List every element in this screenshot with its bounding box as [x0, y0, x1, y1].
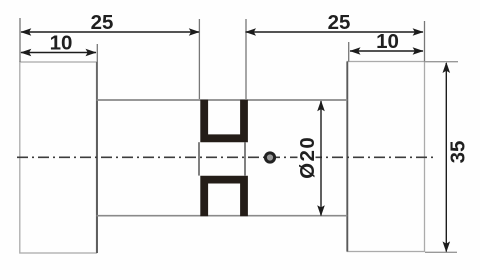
svg-text:35: 35: [446, 141, 469, 164]
arrow D20 up: [317, 100, 325, 111]
dimension line 35: [445, 63, 447, 252]
extension line right end: [424, 21, 426, 62]
shaft bottom edge: [97, 215, 348, 217]
svg-text:Ø20: Ø20: [296, 136, 319, 179]
centerline: [17, 156, 435, 158]
svg-text:10: 10: [376, 30, 399, 53]
groove root left silhouette line: [198, 142, 200, 175]
extension line groove left: [198, 19, 200, 99]
svg-text:25: 25: [328, 11, 351, 34]
arrow 10L left: [20, 49, 31, 57]
arrow 25R right: [413, 28, 424, 36]
groove upper profile (thick U): [204, 100, 244, 139]
dimension line 10 left: [21, 52, 96, 54]
extension line 35 bottom: [425, 251, 457, 253]
extension line groove right: [245, 19, 247, 99]
arrow 10L right: [86, 49, 97, 57]
arrow 35 up: [443, 62, 451, 73]
dimension line 25 right: [246, 31, 424, 33]
arrow 10R right: [413, 47, 424, 55]
arrow 25L right: [189, 28, 200, 36]
svg-text:25: 25: [91, 11, 114, 34]
groove root right silhouette line: [244, 142, 246, 175]
arrow 35 down: [443, 241, 451, 252]
right flange outline: [347, 62, 424, 252]
extension line right flange left: [348, 42, 350, 62]
extension line 35 top: [425, 61, 458, 63]
extension line left flange right: [96, 44, 98, 100]
arrow D20 down: [317, 205, 325, 216]
arrow 25R left: [245, 28, 256, 36]
arrow 25L left: [20, 28, 31, 36]
right flange/shaft junction line: [346, 62, 348, 252]
dimension line 25 left: [21, 31, 199, 33]
svg-text:10: 10: [50, 32, 73, 55]
dimension line D20: [320, 101, 322, 216]
groove lower profile (thick inverted U): [204, 180, 244, 217]
label D20 backing: [298, 135, 316, 181]
center point circle: [265, 153, 274, 162]
extension line left end: [19, 18, 21, 62]
left flange outline: [20, 62, 97, 253]
arrow 10R left: [350, 47, 361, 55]
left flange/shaft junction line: [96, 62, 98, 253]
shaft top edge: [97, 99, 348, 101]
dimension line 10 right: [350, 50, 423, 52]
